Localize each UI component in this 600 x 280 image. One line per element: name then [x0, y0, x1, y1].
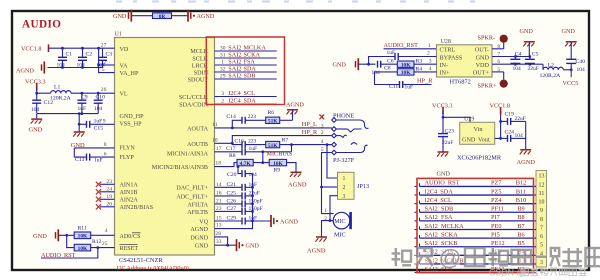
- svg-text:C20: C20: [227, 172, 237, 178]
- wire: [131, 15, 152, 17]
- power port VCC3.3 (ldo): [432, 103, 452, 115]
- svg-text:104: 104: [515, 133, 524, 139]
- resistor R7: [266, 138, 332, 149]
- ground AGND (under MIC): [307, 237, 327, 255]
- wire VDD rail: [492, 63, 543, 66]
- wire: [172, 15, 189, 17]
- svg-text:U1: U1: [115, 32, 122, 38]
- capacitor C13: [74, 148, 114, 164]
- svg-text:B8: B8: [517, 214, 524, 221]
- svg-text:10: 10: [539, 200, 545, 206]
- audio codec U1 body: [115, 32, 215, 256]
- capacitor C19: [501, 111, 526, 125]
- svg-text:GND: GND: [33, 233, 47, 240]
- svg-text:2: 2: [221, 99, 224, 105]
- pin 20 no-connect X: [96, 201, 115, 209]
- svg-text:C2: C2: [86, 52, 93, 58]
- svg-text:51K: 51K: [268, 119, 278, 125]
- resistor R6: [266, 110, 293, 125]
- svg-text:SDA: SDA: [244, 98, 257, 105]
- power port VCC3.3: [25, 79, 45, 91]
- svg-text:SAI2: SAI2: [228, 44, 241, 51]
- wire mic line to JP13: [326, 143, 338, 178]
- capacitor C14: [226, 114, 265, 128]
- svg-text:SDOUT: SDOUT: [188, 78, 209, 84]
- svg-text:SAI2 SCKA: SAI2 SCKA: [425, 231, 459, 238]
- wire: [37, 88, 51, 94]
- wire: [58, 234, 74, 237]
- svg-text:30: 30: [220, 45, 226, 51]
- svg-text:1uF: 1uF: [405, 85, 414, 91]
- resistor R8: [229, 153, 253, 167]
- power port GND (above C40): [562, 28, 577, 60]
- wire Vout: [495, 111, 502, 140]
- resistor R1: [153, 10, 172, 20]
- svg-text:IN+: IN+: [440, 70, 451, 77]
- svg-text:PZ5: PZ5: [491, 188, 502, 195]
- capacitor C20: [227, 167, 257, 178]
- pin 17: [216, 146, 222, 152]
- pin 4: [105, 228, 108, 234]
- schematic title AUDIO: [22, 19, 61, 31]
- svg-text:3: 3: [429, 58, 432, 64]
- svg-text:C23: C23: [445, 128, 455, 134]
- svg-text:33: 33: [216, 239, 222, 245]
- watermark csdn: [489, 267, 586, 277]
- amp pin 8: [497, 44, 500, 50]
- inductor L1: [50, 84, 72, 101]
- svg-text:2: 2: [427, 51, 430, 57]
- mic pin numbers: [324, 208, 327, 222]
- capacitor C6: [369, 50, 437, 65]
- svg-text:C3: C3: [106, 52, 113, 58]
- svg-text:Vin: Vin: [474, 126, 483, 133]
- svg-text:GND: GND: [113, 13, 127, 20]
- capacitor C2: [77, 48, 93, 68]
- svg-text:SCL: SCL: [244, 90, 256, 97]
- wire AUDIO_RST: [41, 248, 98, 258]
- capacitor C9: [77, 93, 87, 113]
- amp pin 5: [497, 67, 500, 73]
- svg-text:AUDIO_RST: AUDIO_RST: [384, 42, 419, 49]
- svg-text:RESET: RESET: [120, 246, 139, 252]
- svg-text:51K: 51K: [268, 143, 278, 149]
- svg-text:223: 223: [248, 138, 257, 144]
- svg-text:10K: 10K: [401, 70, 411, 76]
- table net rows: [415, 180, 537, 273]
- pin 11: [212, 122, 218, 128]
- svg-text:4.7K: 4.7K: [240, 161, 252, 167]
- svg-text:VL: VL: [120, 92, 128, 98]
- regulator U29 body: [460, 117, 495, 145]
- capacitor C23: [438, 117, 454, 151]
- svg-text:2: 2: [321, 130, 324, 136]
- svg-text:0R: 0R: [159, 14, 166, 20]
- svg-text:VSS_HP: VSS_HP: [120, 122, 143, 128]
- svg-text:C8: C8: [384, 65, 391, 71]
- ground GND (under C12): [29, 119, 43, 133]
- pin 23 no-connect X: [96, 179, 115, 187]
- microphone MIC symbol: [333, 212, 350, 229]
- net label HP_R (amp): [413, 78, 433, 85]
- JP13 pin 3: [343, 194, 346, 200]
- svg-text:C24: C24: [505, 129, 515, 135]
- svg-text:VD: VD: [120, 47, 129, 53]
- svg-text:AD0/CS: AD0/CS: [120, 234, 142, 240]
- svg-text:4: 4: [321, 139, 324, 145]
- capacitor C3: [97, 48, 113, 68]
- inductor L2: [540, 62, 572, 79]
- wire JP13 pin3 stub: [330, 196, 338, 221]
- power port GND (amp input): [333, 58, 359, 70]
- svg-text:4: 4: [105, 228, 108, 234]
- power port GND (bottom left): [33, 229, 58, 241]
- svg-text:8: 8: [540, 217, 543, 223]
- svg-text:I2C4: I2C4: [228, 98, 240, 105]
- svg-text:GND: GND: [520, 28, 534, 35]
- power port VCC1.8 (ldo): [490, 102, 510, 114]
- capacitor C10: [94, 93, 105, 113]
- jack pin 4 contact: [332, 142, 357, 147]
- svg-text:PF11: PF11: [491, 206, 504, 213]
- svg-text:120R,2A: 120R,2A: [50, 95, 72, 101]
- svg-text:20: 20: [106, 201, 112, 207]
- svg-text:B7: B7: [517, 223, 524, 230]
- svg-text:PZ7: PZ7: [491, 180, 502, 187]
- svg-text:PHONE: PHONE: [333, 113, 354, 120]
- svg-text:C21: C21: [227, 182, 237, 188]
- svg-text:B6: B6: [517, 231, 524, 238]
- svg-text:C15: C15: [94, 125, 104, 131]
- svg-text:AFILTA: AFILTA: [187, 203, 208, 209]
- wire pin7 gnd rail: [492, 55, 531, 58]
- pin 6: [104, 151, 107, 157]
- U29 part number: [457, 155, 502, 162]
- svg-text:32: 32: [220, 66, 226, 72]
- jack pin1 no-connect X: [319, 115, 324, 120]
- wire VL rail: [71, 92, 115, 95]
- svg-text:C16: C16: [235, 138, 245, 144]
- svg-text:10: 10: [212, 137, 218, 143]
- svg-text:3: 3: [221, 91, 224, 97]
- svg-text:22uF: 22uF: [515, 116, 526, 122]
- svg-text:28: 28: [215, 231, 221, 237]
- pin 13: [216, 223, 222, 229]
- wire AGND bus: [215, 174, 253, 229]
- svg-text:5: 5: [540, 243, 543, 249]
- svg-text:18: 18: [215, 161, 221, 167]
- svg-text:12: 12: [539, 182, 545, 188]
- wire cap bottom rail: [48, 66, 103, 69]
- svg-text:1uF: 1uF: [94, 157, 103, 163]
- wire: [291, 145, 293, 152]
- svg-text:1: 1: [428, 43, 431, 49]
- svg-text:GND: GND: [437, 171, 451, 178]
- svg-text:CTRL: CTRL: [440, 47, 456, 54]
- ground AGND (ldo): [517, 150, 536, 166]
- capacitor C29: [215, 216, 258, 225]
- pin 24 no-connect X: [96, 186, 115, 194]
- JP13 pin 2: [343, 185, 346, 191]
- resistor R11: [74, 225, 91, 239]
- svg-text:3: 3: [321, 123, 324, 129]
- power port VCC5: [563, 68, 579, 87]
- wire: [215, 244, 237, 247]
- svg-text:11: 11: [212, 122, 218, 128]
- svg-text:HP_R: HP_R: [417, 78, 433, 85]
- wire: [287, 163, 296, 172]
- power port GND (above C4 C5): [520, 28, 535, 57]
- wire: [358, 63, 375, 66]
- svg-text:22: 22: [216, 206, 222, 212]
- connector PHONE label: [333, 113, 354, 120]
- U1 I2C address note: [117, 265, 189, 272]
- svg-text:ADC_FILT+: ADC_FILT+: [176, 195, 208, 201]
- wire: [215, 163, 240, 168]
- jack pin 3 contact: [332, 127, 362, 132]
- svg-text:HP_R: HP_R: [302, 129, 318, 136]
- net label HP_R: [302, 129, 318, 136]
- svg-text:AIN1B: AIN1B: [120, 190, 138, 196]
- svg-text:R6: R6: [268, 110, 275, 116]
- ground AGND (right of I2C rows): [286, 101, 304, 118]
- svg-text:C12: C12: [44, 100, 54, 106]
- wire: [91, 246, 115, 249]
- pin 18: [215, 161, 221, 167]
- svg-text:AUDIO: AUDIO: [22, 19, 61, 31]
- pin 29 net SAI2_SDB: [215, 72, 277, 79]
- svg-text:SAI2: SAI2: [228, 72, 241, 79]
- svg-text:DAC_FILT+: DAC_FILT+: [176, 186, 208, 192]
- svg-text:1uF: 1uF: [387, 50, 396, 56]
- svg-text:HT6872: HT6872: [450, 79, 471, 86]
- wire HP_L: [215, 127, 332, 130]
- svg-text:15: 15: [216, 216, 222, 222]
- svg-text:CS42L51-CNZR: CS42L51-CNZR: [119, 257, 163, 264]
- resistor R3: [397, 59, 436, 69]
- power port AGND (left): [16, 62, 44, 75]
- ground GND (under C15): [71, 132, 85, 149]
- wire ground rail: [37, 112, 98, 119]
- pin 27: [101, 42, 107, 48]
- svg-text:21: 21: [216, 199, 222, 205]
- svg-text:R9: R9: [274, 168, 281, 174]
- power port AGND (filter bus): [271, 215, 298, 227]
- svg-text:U29: U29: [464, 117, 474, 123]
- svg-text:AGND: AGND: [517, 159, 536, 166]
- svg-text:I2C Address is 0X94(AD0=0): I2C Address is 0X94(AD0=0): [117, 265, 189, 272]
- MIC designator: [334, 231, 346, 238]
- capacitor C21: [215, 182, 258, 191]
- svg-text:SAI2: SAI2: [228, 58, 241, 65]
- svg-text:C5: C5: [532, 51, 539, 57]
- resistor R4: [397, 66, 436, 76]
- svg-text:6: 6: [540, 234, 543, 240]
- svg-text:B11: B11: [516, 188, 526, 195]
- pin 2 net I2C4_SDA: [215, 98, 277, 105]
- jack designator PJ-327F: [333, 157, 355, 164]
- pin 31 net SAI2_SCKA: [215, 51, 277, 58]
- wire HP_R: [232, 136, 331, 144]
- svg-text:SAI2: SAI2: [228, 51, 241, 58]
- wire: [91, 234, 115, 236]
- jack pin 5 contact: [332, 145, 368, 155]
- svg-text:1: 1: [221, 59, 224, 65]
- svg-text:22uF: 22uF: [249, 191, 260, 197]
- svg-text:24: 24: [106, 186, 112, 192]
- svg-text:14: 14: [216, 182, 222, 188]
- svg-text:11: 11: [539, 191, 545, 197]
- svg-text:22uF: 22uF: [528, 66, 539, 72]
- pin 33: [216, 239, 222, 245]
- svg-text:16: 16: [216, 191, 222, 197]
- capacitor C27: [215, 206, 263, 215]
- pin 26: [101, 87, 107, 93]
- svg-text:25: 25: [102, 241, 108, 247]
- svg-text:AGND: AGND: [16, 67, 34, 74]
- svg-text:1: 1: [324, 208, 327, 214]
- svg-text:6: 6: [104, 151, 107, 157]
- svg-text:VA_HP: VA_HP: [120, 71, 139, 77]
- jack pin 2 contact: [332, 133, 347, 138]
- svg-text:Vout: Vout: [478, 137, 490, 144]
- svg-text:SAI2 FSA: SAI2 FSA: [425, 214, 453, 221]
- svg-text:AUDIO RST: AUDIO RST: [425, 180, 460, 187]
- svg-text:1: 1: [343, 176, 346, 182]
- svg-text:R7: R7: [282, 138, 289, 144]
- svg-text:B9: B9: [517, 206, 524, 213]
- pin 19 no-connect X: [96, 194, 115, 202]
- svg-text:104: 104: [577, 67, 586, 73]
- svg-text:9: 9: [540, 208, 543, 214]
- svg-text:OUT+: OUT+: [473, 70, 490, 77]
- capacitor C26: [215, 199, 263, 208]
- capacitor C24: [501, 129, 526, 142]
- resistor R12: [74, 239, 101, 252]
- svg-text:120R,2A: 120R,2A: [540, 73, 562, 79]
- svg-text:FSA: FSA: [244, 58, 256, 65]
- svg-text:9: 9: [103, 118, 106, 124]
- svg-text:GND: GND: [246, 243, 260, 250]
- svg-text:150pF: 150pF: [249, 199, 263, 205]
- net label MICBIAS: [267, 150, 293, 157]
- ground GND (under C23): [437, 152, 451, 178]
- svg-text:SPKR+: SPKR+: [478, 83, 497, 90]
- svg-text:SPKR-: SPKR-: [478, 34, 496, 41]
- speaker terminal SPKR+: [478, 72, 508, 90]
- connector JP13 body: [338, 172, 355, 199]
- power port GND (pin 33): [237, 239, 260, 251]
- svg-text:B10: B10: [516, 197, 527, 204]
- amp pin 3: [429, 58, 432, 64]
- svg-text:VCC1.8: VCC1.8: [490, 102, 510, 109]
- svg-text:SCKA: SCKA: [244, 51, 261, 58]
- svg-text:AGND: AGND: [197, 13, 215, 20]
- svg-text:C9: C9: [81, 95, 88, 101]
- JP13 pin 1: [343, 176, 346, 182]
- svg-text:MICIN2/BIAS/AIN3B: MICIN2/BIAS/AIN3B: [152, 165, 208, 171]
- svg-text:@: @: [439, 245, 462, 270]
- svg-text:3: 3: [540, 260, 543, 266]
- svg-text:GND: GND: [476, 54, 490, 61]
- svg-text:MCLKA: MCLKA: [244, 44, 267, 51]
- svg-text:1uF: 1uF: [249, 146, 258, 152]
- svg-text:C27: C27: [227, 206, 237, 212]
- svg-text:PJ-327F: PJ-327F: [333, 157, 355, 164]
- svg-text:2: 2: [343, 185, 346, 191]
- svg-text:AOUTA: AOUTA: [187, 126, 208, 132]
- svg-text:IN-: IN-: [440, 62, 449, 69]
- net label AUDIO_RST (left): [41, 252, 76, 259]
- jack J1 pin 1 contact: [332, 118, 369, 129]
- capacitor C5: [525, 51, 539, 71]
- pin 10: [212, 137, 218, 143]
- svg-text:SAI2: SAI2: [228, 65, 241, 72]
- svg-text:I2C4 SCL: I2C4 SCL: [425, 197, 452, 204]
- svg-text:8: 8: [104, 142, 107, 148]
- svg-text:PI7: PI7: [491, 214, 500, 221]
- net label AUDIO_RST (amp): [384, 42, 419, 49]
- svg-text:VCC1.8: VCC1.8: [21, 46, 41, 53]
- svg-text:31: 31: [220, 52, 226, 58]
- svg-text:I2C4 SDA: I2C4 SDA: [425, 188, 454, 195]
- wire: [525, 121, 527, 149]
- wire: [215, 142, 234, 145]
- svg-text:223: 223: [248, 114, 256, 120]
- svg-text:I2C4: I2C4: [228, 90, 240, 97]
- capacitor C12: [31, 92, 53, 113]
- amp pin 2: [427, 51, 430, 57]
- svg-text:SDA/CDIN: SDA/CDIN: [179, 103, 208, 109]
- wire: [215, 237, 228, 245]
- svg-text:C40: C40: [576, 59, 586, 65]
- capacitor C25: [215, 191, 260, 200]
- svg-text:AIN2B/BIAS: AIN2B/BIAS: [120, 205, 154, 211]
- svg-text:19: 19: [106, 194, 112, 200]
- svg-text:GND: GND: [195, 243, 209, 249]
- svg-text:C19: C19: [505, 111, 515, 117]
- pin 9: [103, 118, 106, 124]
- table highlight box: [417, 178, 534, 272]
- wire sleeve down: [320, 153, 337, 214]
- svg-text:17: 17: [216, 146, 222, 152]
- svg-text:22uF: 22uF: [442, 140, 453, 146]
- svg-text:PE0: PE0: [491, 223, 502, 230]
- svg-text:SDA: SDA: [244, 65, 257, 72]
- pin 30 net SAI2_MCLKA: [215, 44, 277, 51]
- svg-text:VDD: VDD: [476, 62, 490, 69]
- svg-text:SAI2 SDB: SAI2 SDB: [425, 206, 454, 213]
- svg-text:C1: C1: [66, 52, 73, 58]
- svg-text:1uF: 1uF: [94, 119, 103, 125]
- node junctions on VCC1.8 rail: [61, 47, 84, 50]
- amp pin 1: [428, 43, 431, 49]
- svg-text:VCC5: VCC5: [563, 80, 579, 87]
- svg-text:10K: 10K: [78, 246, 88, 252]
- wire VCC1.8 rail: [49, 47, 115, 73]
- svg-text:3: 3: [343, 194, 346, 200]
- capacitor C15: [78, 119, 115, 132]
- speaker terminal SPKR-: [478, 34, 508, 48]
- svg-text:C11: C11: [389, 84, 398, 90]
- capacitor C11: [375, 72, 414, 91]
- connector strip body: [536, 171, 547, 268]
- svg-text:C14: C14: [226, 114, 236, 120]
- cropped page-heading remnant: [116, 0, 475, 2]
- svg-text:104: 104: [31, 107, 40, 113]
- wire: [253, 220, 272, 222]
- svg-text:C6: C6: [387, 58, 394, 64]
